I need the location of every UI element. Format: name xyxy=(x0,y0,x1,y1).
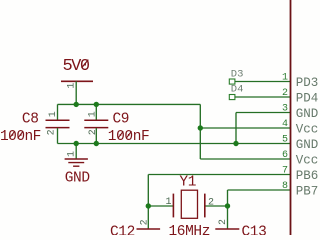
svg-text:8: 8 xyxy=(282,181,288,192)
svg-text:7: 7 xyxy=(282,166,288,177)
capacitor C9 top stub xyxy=(95,104,97,119)
svg-text:100nF: 100nF xyxy=(0,129,41,145)
crystal Y1 body rectangle xyxy=(181,190,197,218)
svg-text:PD4(: PD4( xyxy=(296,91,320,105)
junction dot C9/bottom rail xyxy=(94,141,99,146)
crystal Y1 electrodes xyxy=(172,194,174,218)
wire bottom GND rail to pin 5 xyxy=(58,143,291,145)
svg-text:100nF: 100nF xyxy=(108,129,150,145)
wire pin 7 PB6 xyxy=(148,174,290,176)
wire pin 3 GND xyxy=(236,112,291,114)
slashed zero for 5V0 xyxy=(82,60,89,68)
junction dot crystal left/C12 xyxy=(146,203,151,208)
svg-text:GND: GND xyxy=(296,138,319,152)
wire pin 8 vertical to crystal xyxy=(227,190,229,206)
wire pin 4 Vcc xyxy=(200,127,290,129)
wire crystal right xyxy=(205,205,228,207)
capacitor C12 top plate xyxy=(137,228,161,230)
svg-text:GND: GND xyxy=(296,107,319,121)
svg-text:3: 3 xyxy=(282,104,288,115)
svg-text:1: 1 xyxy=(282,73,288,84)
svg-text:6: 6 xyxy=(282,150,288,161)
net stub box D3 xyxy=(229,79,235,84)
wire pin 3 vertical to GND rail xyxy=(235,113,237,144)
svg-text:Vcc: Vcc xyxy=(296,153,319,167)
svg-text:16MHz: 16MHz xyxy=(169,224,211,235)
svg-text:1: 1 xyxy=(165,197,171,208)
wire pin 6 Vcc xyxy=(200,158,290,160)
junction dot 5V0/top rail xyxy=(74,102,79,107)
svg-text:2: 2 xyxy=(218,219,229,225)
capacitor C13 stub xyxy=(227,206,229,229)
svg-text:2: 2 xyxy=(140,219,151,225)
net stub box D4 xyxy=(229,95,235,100)
svg-text:C13: C13 xyxy=(242,224,267,235)
wire Vcc vertical drop xyxy=(199,104,201,159)
power symbol 5V0 bar xyxy=(61,80,93,82)
svg-text:5: 5 xyxy=(282,135,288,146)
svg-text:PB7(: PB7( xyxy=(296,184,320,198)
capacitor C9 plates xyxy=(84,119,108,121)
junction dot GND stem/bottom rail xyxy=(74,141,79,146)
junction dot crystal right/C13 xyxy=(225,203,230,208)
svg-text:2: 2 xyxy=(47,129,58,135)
svg-text:2: 2 xyxy=(282,88,288,99)
capacitor C9 bottom stub xyxy=(95,128,97,143)
IC U1 body edge xyxy=(290,0,292,235)
wire pin 2 PD4 xyxy=(235,96,291,98)
svg-text:Vcc: Vcc xyxy=(296,122,319,136)
ground symbol bars xyxy=(65,158,88,160)
wire GND stem xyxy=(75,144,77,159)
junction dot pin3 drop/GND rail xyxy=(233,141,238,146)
capacitor C8 plates xyxy=(46,119,70,121)
capacitor C12 stub xyxy=(147,206,149,229)
svg-text:PB6(: PB6( xyxy=(296,169,320,183)
svg-text:PD3(: PD3( xyxy=(296,76,320,90)
svg-text:D4: D4 xyxy=(231,84,244,96)
capacitor C13 top plate xyxy=(215,228,239,230)
slashed zeros for C9 100nF xyxy=(118,131,123,138)
wire top Vcc rail xyxy=(58,103,201,105)
slashed zeros for C8 100nF xyxy=(9,131,14,138)
svg-text:1: 1 xyxy=(48,111,59,117)
svg-text:Y1: Y1 xyxy=(179,175,196,191)
wire crystal left xyxy=(148,205,173,207)
svg-text:5V0: 5V0 xyxy=(62,57,89,76)
svg-text:1: 1 xyxy=(66,151,77,157)
wire pin 8 PB7 xyxy=(228,189,291,191)
svg-text:4: 4 xyxy=(282,119,288,130)
capacitor C8 bottom stub xyxy=(57,128,59,143)
svg-text:C8: C8 xyxy=(22,111,39,127)
capacitor C8 top stub xyxy=(57,104,59,119)
wire 5V0 stem xyxy=(75,81,77,104)
svg-text:2: 2 xyxy=(208,197,214,208)
junction dot C9/top rail xyxy=(94,102,99,107)
svg-text:2: 2 xyxy=(88,129,99,135)
wire pin 7 vertical to crystal xyxy=(147,175,149,207)
svg-text:GND: GND xyxy=(65,170,90,186)
junction dot pin4/Vcc vertical xyxy=(198,125,203,130)
svg-text:1: 1 xyxy=(88,111,99,117)
svg-text:C9: C9 xyxy=(113,111,130,127)
svg-text:C12: C12 xyxy=(110,224,135,235)
wire pin 1 PD3 xyxy=(235,81,291,83)
